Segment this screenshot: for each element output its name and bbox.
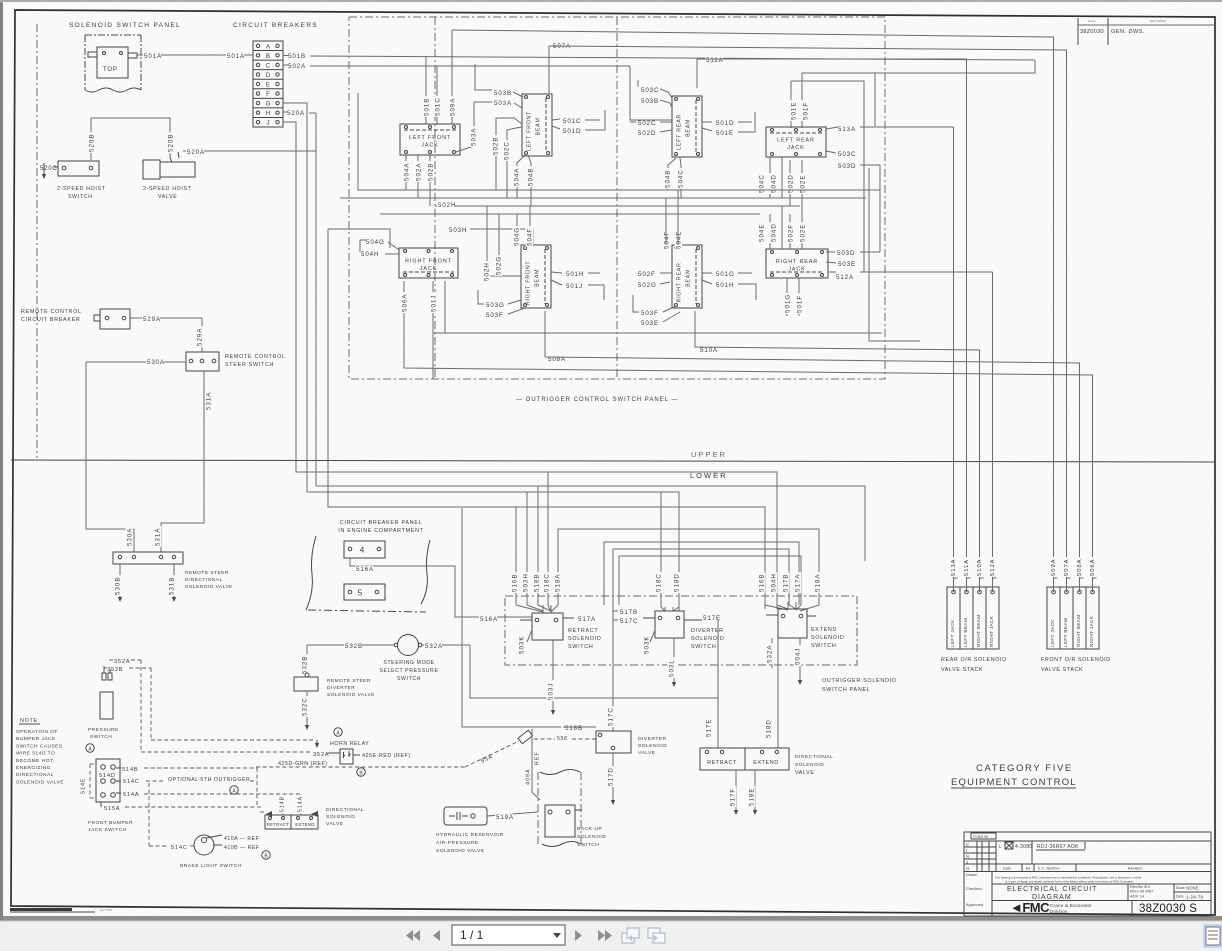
svg-text:DIRECTIONAL: DIRECTIONAL — [795, 754, 833, 760]
svg-text:504J: 504J — [794, 648, 801, 665]
svg-text:RETRACT: RETRACT — [707, 760, 737, 766]
svg-text:Scale: Scale — [1176, 886, 1185, 890]
pressure switch — [100, 692, 113, 719]
svg-text:Revision: Revision — [1128, 867, 1143, 871]
outrigger panel dash-dot boundary — [349, 17, 885, 379]
wire 516A from breaker 4 — [350, 558, 532, 617]
wire 532C ground — [306, 691, 308, 726]
svg-text:503B: 503B — [641, 98, 659, 105]
svg-text:BACK-UP: BACK-UP — [577, 826, 602, 832]
svg-text:502C: 502C — [638, 120, 656, 127]
svg-text:Division: Division — [1050, 909, 1068, 914]
svg-text:504H: 504H — [770, 573, 777, 592]
svg-text:SWITCH: SWITCH — [397, 676, 421, 682]
wire 531A — [161, 371, 204, 552]
svg-text:IN ENGINE COMPARTMENT: IN ENGINE COMPARTMENT — [338, 528, 423, 534]
svg-text:SWITCH PANEL: SWITCH PANEL — [822, 687, 870, 693]
diverter feed columns — [660, 492, 662, 607]
labels 504A 504B below left front beam — [517, 155, 525, 198]
svg-text:352A: 352A — [114, 659, 130, 665]
svg-text:514A: 514A — [123, 792, 139, 798]
labels 517B 517C — [619, 609, 637, 616]
svg-text:503E: 503E — [838, 261, 856, 268]
svg-text:516A: 516A — [356, 566, 374, 573]
breaker 4 — [344, 541, 385, 558]
svg-text:LEFT BEAM: LEFT BEAM — [963, 618, 968, 647]
wire 501B — [287, 53, 305, 60]
wire 520A to valve — [183, 150, 316, 152]
svg-text:517C: 517C — [607, 707, 614, 726]
middle bus y190 — [358, 93, 880, 190]
svg-text:D: D — [266, 72, 271, 79]
svg-text:532C: 532C — [301, 697, 308, 716]
svg-text:517A: 517A — [794, 574, 801, 592]
breaker 5 — [344, 584, 385, 600]
svg-text:502A: 502A — [288, 63, 306, 70]
svg-text:502E: 502E — [799, 224, 806, 242]
toolbar previous page button — [433, 930, 440, 941]
svg-text:501C: 501C — [563, 118, 581, 125]
svg-text:532B: 532B — [345, 643, 363, 650]
wire 503J ground — [552, 640, 554, 710]
svg-text:512A: 512A — [836, 274, 854, 281]
wire 513A — [837, 126, 855, 133]
svg-text:502B: 502B — [427, 163, 434, 181]
label 502H — [437, 202, 455, 209]
toolbar next page button — [575, 930, 582, 941]
svg-text:G: G — [266, 101, 271, 108]
svg-text:502B: 502B — [492, 137, 499, 155]
svg-text:2-SPEED HOIST: 2-SPEED HOIST — [57, 186, 106, 192]
labels 501G 501F below right rear jack — [786, 278, 788, 316]
front bumper jack switch — [96, 759, 120, 802]
svg-text:FORM 56: FORM 56 — [973, 835, 988, 839]
right front jack box — [399, 248, 458, 278]
svg-text:517B: 517B — [782, 574, 789, 592]
svg-text:502H: 502H — [438, 202, 456, 209]
bus y333 — [434, 332, 882, 334]
svg-text:504B: 504B — [527, 168, 534, 186]
svg-text:FRONT BUMPER: FRONT BUMPER — [88, 820, 133, 826]
wire 532A from switch — [421, 644, 470, 646]
svg-text:SWITCH: SWITCH — [568, 644, 593, 650]
svg-text:517F: 517F — [729, 788, 736, 806]
svg-text:504H: 504H — [361, 251, 379, 258]
svg-text:UPPER: UPPER — [691, 450, 727, 459]
svg-text:519A: 519A — [496, 814, 514, 821]
svg-text:501E: 501E — [790, 102, 797, 120]
svg-text:501H: 501H — [716, 282, 734, 289]
labels above extend switch — [758, 572, 766, 593]
svg-text:JACK: JACK — [787, 145, 804, 151]
bus 556 — [619, 556, 801, 605]
wire 520B hoist run — [91, 118, 170, 160]
svg-text:352B: 352B — [107, 667, 123, 673]
circle A optional — [230, 786, 238, 794]
engine panel torn boundary — [306, 536, 316, 610]
svg-text:REVISION: REVISION — [1150, 19, 1166, 23]
labels 504A 502A 502B below left front jack — [405, 155, 407, 190]
wire 518B — [564, 725, 582, 732]
svg-text:504E: 504E — [758, 224, 765, 242]
svg-text:EXTEND: EXTEND — [295, 822, 314, 827]
svg-text:By: By — [1026, 867, 1030, 871]
svg-text:E: E — [266, 82, 270, 89]
wire 504J ground — [799, 638, 801, 680]
left rear beam box — [672, 96, 702, 157]
svg-text:506A: 506A — [1090, 558, 1096, 576]
svg-text:RIGHT FRONT: RIGHT FRONT — [405, 259, 452, 265]
upper-lower divider line — [11, 460, 1215, 462]
svg-text:J: J — [266, 120, 269, 127]
label 515A — [100, 802, 102, 807]
svg-text:C: C — [966, 842, 969, 847]
svg-text:504F: 504F — [663, 231, 670, 249]
retract feed columns — [515, 507, 517, 605]
svg-text:JACK: JACK — [420, 266, 437, 272]
labels 504G 504F above right front beam — [516, 214, 518, 245]
svg-text:510A: 510A — [977, 558, 983, 576]
svg-text:518C: 518C — [543, 573, 550, 592]
svg-text:ENERGIZING: ENERGIZING — [16, 765, 51, 771]
bus 509A top — [452, 30, 1054, 590]
svg-text:REMOTE CONTROL: REMOTE CONTROL — [225, 354, 286, 360]
svg-text:503J: 503J — [547, 683, 554, 700]
svg-text:SOLENOID: SOLENOID — [638, 743, 667, 749]
svg-text:532A: 532A — [425, 643, 443, 650]
dashed 515A wire — [125, 806, 257, 808]
svg-text:513A: 513A — [838, 126, 856, 133]
svg-text:LEFT REAR: LEFT REAR — [677, 114, 683, 150]
circle B brake — [262, 851, 270, 859]
svg-text:503E: 503E — [641, 320, 659, 327]
svg-text:517A: 517A — [578, 616, 596, 623]
wire 517C down to diverter valve — [612, 549, 614, 731]
right rear beam box — [672, 245, 702, 308]
svg-text:38Z0030 S: 38Z0030 S — [1139, 903, 1197, 915]
wire 501E feed — [791, 81, 864, 272]
svg-text:Checked: Checked — [966, 887, 982, 891]
svg-text:514B: 514B — [279, 796, 285, 812]
svg-text:503F: 503F — [641, 310, 659, 317]
svg-text:BRAKE LIGHT SWITCH: BRAKE LIGHT SWITCH — [180, 863, 242, 869]
svg-text:501B: 501B — [288, 53, 306, 60]
svg-text:BEAM: BEAM — [686, 269, 692, 287]
svg-text:REMOTE CONTROL: REMOTE CONTROL — [21, 309, 82, 315]
svg-text:508A: 508A — [1077, 558, 1083, 576]
toolbar first page button — [406, 930, 420, 941]
svg-text:DIVERTER: DIVERTER — [327, 685, 355, 691]
svg-text:LEFT FRONT: LEFT FRONT — [409, 135, 451, 141]
svg-text:SOLENOID VALVE: SOLENOID VALVE — [16, 779, 64, 785]
dashed wire 352A run — [140, 660, 142, 752]
svg-text:SWITCH: SWITCH — [691, 644, 716, 650]
svg-text:BECOME HOT,: BECOME HOT, — [16, 758, 55, 764]
toolbar prev view icon — [622, 928, 639, 943]
svg-text:520A: 520A — [187, 149, 205, 156]
label 425E-RED — [353, 754, 360, 756]
remote control steer switch — [186, 352, 219, 371]
svg-text:501E: 501E — [716, 130, 734, 137]
svg-text:501F: 501F — [796, 295, 803, 313]
svg-text:F: F — [266, 91, 270, 98]
middle bus y206 — [435, 205, 800, 207]
wire 506A — [404, 281, 1093, 590]
svg-text:425D-GRN (REF): 425D-GRN (REF) — [278, 761, 328, 767]
svg-text:501J: 501J — [430, 295, 437, 312]
svg-text:512A: 512A — [990, 558, 996, 576]
left front jack box — [400, 124, 460, 155]
svg-text:SWITCH: SWITCH — [68, 194, 93, 200]
svg-text:CIRCUIT BREAKERS: CIRCUIT BREAKERS — [233, 22, 318, 29]
svg-text:2-SPEED HOIST: 2-SPEED HOIST — [143, 186, 192, 192]
svg-text:503K: 503K — [518, 636, 525, 654]
svg-text:504G: 504G — [513, 227, 520, 246]
labels 504C 504D 502D 502E below left rear jack — [769, 157, 771, 198]
svg-text:515A: 515A — [104, 806, 120, 812]
svg-text:B: B — [266, 53, 270, 60]
svg-text:530A: 530A — [126, 528, 133, 546]
wire 408A — [531, 729, 533, 792]
svg-text:DIVERTER: DIVERTER — [638, 736, 667, 742]
dashed 425D run with 95A — [144, 767, 256, 769]
svg-text:RIGHT JACK: RIGHT JACK — [1089, 615, 1094, 647]
wire 501A from panel to breakers — [137, 54, 253, 56]
dashed 514A wire — [144, 793, 301, 795]
svg-text:RIGHT REAR: RIGHT REAR — [677, 262, 683, 302]
svg-text:517B: 517B — [620, 609, 638, 616]
svg-text:532B: 532B — [301, 656, 308, 674]
svg-text:VALVE: VALVE — [795, 770, 815, 776]
reference table top right — [1077, 18, 1079, 45]
svg-text:— OUTRIGGER CONTROL SWITCH PAN: — OUTRIGGER CONTROL SWITCH PANEL — — [516, 397, 678, 403]
svg-text:OPERATION OF: OPERATION OF — [16, 729, 58, 735]
svg-text:◄FMC: ◄FMC — [1010, 900, 1050, 915]
svg-text:4: 4 — [360, 546, 365, 555]
svg-text:5: 5 — [358, 589, 363, 598]
svg-text:516B: 516B — [758, 574, 765, 592]
svg-text:DIRECTIONAL: DIRECTIONAL — [326, 807, 364, 813]
svg-text:LEFT REAR: LEFT REAR — [777, 138, 815, 144]
bus 511A — [705, 57, 723, 64]
svg-text:CIRCUIT BREAKER: CIRCUIT BREAKER — [21, 317, 81, 323]
svg-text:503F: 503F — [486, 312, 504, 319]
svg-text:EQUIPMENT CONTROL: EQUIPMENT CONTROL — [951, 777, 1077, 788]
directional solenoid valve rear — [700, 748, 789, 770]
svg-text:SOLENOID VALVE: SOLENOID VALVE — [436, 848, 485, 854]
svg-text:509A: 509A — [1051, 558, 1057, 576]
svg-text:502F: 502F — [787, 224, 794, 242]
svg-text:LEFT BEAM: LEFT BEAM — [1063, 618, 1068, 647]
svg-text:GEN. DWS.: GEN. DWS. — [1111, 29, 1145, 35]
bus 542 — [604, 542, 799, 605]
svg-text:502A: 502A — [415, 163, 422, 181]
svg-text:BEAM: BEAM — [536, 117, 542, 135]
svg-text:1 / 1: 1 / 1 — [460, 928, 484, 942]
toolbar page number box — [452, 925, 565, 945]
wire 529A — [130, 317, 202, 319]
svg-text:516A: 516A — [480, 616, 498, 623]
svg-text:511A: 511A — [964, 559, 970, 576]
toolbar — [0, 921, 1222, 951]
wire 501F feed — [801, 73, 803, 128]
svg-text:REMOTE STEER: REMOTE STEER — [327, 678, 371, 684]
dashed 514B wire — [144, 767, 257, 769]
svg-text:Date: Date — [1176, 895, 1184, 899]
svg-text:TOP: TOP — [103, 67, 118, 73]
sidebar notes icon — [1203, 924, 1222, 948]
svg-text:517E: 517E — [705, 719, 712, 737]
right rear jack box — [766, 249, 828, 278]
svg-text:529A: 529A — [143, 316, 161, 323]
directional solenoid valve front — [265, 815, 318, 829]
svg-text:513A: 513A — [951, 558, 957, 576]
label 503K retract — [518, 634, 526, 655]
wire 510A — [699, 347, 717, 354]
middle bus y198 — [340, 197, 866, 199]
svg-text:504F: 504F — [526, 228, 533, 246]
svg-text:JACK: JACK — [788, 267, 805, 273]
steering mode select pressure switch — [398, 635, 419, 656]
svg-text:510A: 510A — [700, 347, 718, 354]
svg-text:RIGHT REAR: RIGHT REAR — [776, 259, 818, 265]
svg-text:REAR O/R SOLENOID: REAR O/R SOLENOID — [941, 657, 1007, 663]
svg-text:ADV 14: ADV 14 — [1130, 894, 1145, 899]
svg-text:H: H — [266, 110, 270, 117]
svg-text:VALVE STACK: VALVE STACK — [1041, 667, 1083, 673]
svg-text:503H: 503H — [449, 227, 467, 234]
wire 519A — [487, 812, 538, 816]
svg-text:or in part, of design and deta: or in part, of design and details contai… — [1005, 880, 1135, 884]
svg-text:AIR-PRESSURE: AIR-PRESSURE — [436, 840, 479, 846]
svg-text:BEAM: BEAM — [535, 269, 541, 287]
svg-text:JACK SWITCH: JACK SWITCH — [88, 827, 127, 833]
rear outrigger solenoid valve stack — [947, 587, 999, 649]
svg-text:501J: 501J — [566, 283, 583, 290]
svg-text:SOLENOID SWITCH PANEL: SOLENOID SWITCH PANEL — [69, 22, 181, 29]
svg-text:Drawn: Drawn — [966, 873, 977, 877]
svg-text:SOLENOID: SOLENOID — [577, 834, 606, 840]
svg-text:SOLENOID: SOLENOID — [811, 635, 844, 641]
2-speed hoist valve — [143, 160, 160, 179]
svg-text:501B: 501B — [423, 98, 430, 116]
dashed 558 — [556, 736, 567, 742]
svg-text:38Z0030: 38Z0030 — [1080, 29, 1104, 35]
toolbar next view icon — [648, 928, 665, 943]
footer fine print — [10, 908, 72, 911]
svg-text:SELECT PRESSURE: SELECT PRESSURE — [379, 668, 438, 674]
wires 517F 518E grounds — [735, 770, 737, 810]
bus 549 — [613, 549, 789, 605]
svg-text:530A: 530A — [147, 359, 165, 366]
panel divider dash-dot 2 — [616, 17, 618, 379]
circle B horn — [357, 768, 365, 776]
svg-text:517C: 517C — [620, 618, 638, 625]
svg-text:RIGHT JACK: RIGHT JACK — [989, 615, 994, 647]
label 503K diverter — [643, 634, 651, 655]
svg-text:501G: 501G — [784, 294, 791, 313]
svg-text:1-24-78: 1-24-78 — [1186, 895, 1203, 900]
svg-text:REF: REF — [535, 751, 541, 765]
svg-text:518C: 518C — [655, 573, 662, 592]
svg-text:507A: 507A — [1064, 558, 1070, 576]
svg-text:Crane & Excavator: Crane & Excavator — [1050, 903, 1092, 908]
labels 502B 502C 503A vertical — [496, 118, 522, 190]
svg-text:4-3080: 4-3080 — [1015, 844, 1032, 850]
wire 530B ground — [119, 564, 121, 597]
title block — [964, 832, 1211, 916]
labels 504B 504C below left rear beam — [668, 158, 676, 190]
diverter solenoid valve bottom — [596, 731, 631, 753]
svg-text:SOLENOID: SOLENOID — [326, 814, 355, 820]
svg-text:RIGHT BEAM: RIGHT BEAM — [976, 614, 981, 647]
svg-text:504D: 504D — [770, 223, 777, 242]
svg-text:NOTE:: NOTE: — [20, 718, 40, 724]
panel divider dash-dot 1 — [434, 17, 436, 379]
svg-text:514C: 514C — [123, 779, 140, 785]
svg-text:REMOTE STEER: REMOTE STEER — [185, 570, 229, 576]
wire 532A below extend — [771, 638, 773, 668]
2-speed hoist switch — [58, 161, 99, 176]
svg-text:501H: 501H — [566, 271, 584, 278]
svg-text:506A: 506A — [401, 294, 408, 312]
svg-text:502G: 502G — [495, 256, 502, 275]
svg-text:520B: 520B — [88, 134, 95, 152]
svg-text:503H: 503H — [522, 573, 529, 592]
svg-text:504G: 504G — [366, 239, 385, 246]
svg-text:518B: 518B — [533, 574, 540, 592]
svg-text:517D: 517D — [607, 767, 614, 786]
svg-text:RDJ-36R07 AO8: RDJ-36R07 AO8 — [1037, 844, 1078, 850]
svg-text:SOLENOID VALVE: SOLENOID VALVE — [185, 584, 233, 590]
svg-text:E.C. Number: E.C. Number — [1038, 867, 1061, 871]
svg-text:503C: 503C — [641, 87, 659, 94]
labels 503B 503A — [493, 90, 511, 97]
svg-text:509A: 509A — [449, 98, 456, 116]
labels 410A 410B — [206, 835, 222, 838]
wire 517E down to directional valve — [717, 620, 719, 748]
svg-text:WIRE 514D TO: WIRE 514D TO — [16, 751, 55, 757]
svg-text:502D: 502D — [638, 130, 656, 137]
svg-text:DIRECTIONAL: DIRECTIONAL — [185, 577, 223, 583]
svg-text:HORN RELAY: HORN RELAY — [330, 741, 369, 747]
diverter solenoid switch — [655, 611, 684, 638]
svg-text:BEAM: BEAM — [686, 119, 692, 137]
svg-text:STEERING MODE: STEERING MODE — [383, 660, 434, 666]
bus 486 — [316, 486, 865, 561]
svg-text:N: N — [966, 854, 969, 859]
svg-text:511A: 511A — [706, 57, 724, 64]
brake light switch — [194, 835, 214, 855]
svg-text:SOLENOID VALVE: SOLENOID VALVE — [327, 692, 375, 698]
toolbar last page button — [598, 930, 612, 941]
svg-text:RIGHT BEAM: RIGHT BEAM — [1076, 614, 1081, 647]
wire 517D ground — [612, 753, 614, 800]
svg-text:410A — REF: 410A — REF — [224, 836, 259, 842]
svg-text:501D: 501D — [716, 120, 734, 127]
svg-text:SWITCH: SWITCH — [811, 643, 836, 649]
svg-text:352A: 352A — [313, 752, 329, 758]
svg-text:Date: Date — [1003, 867, 1011, 871]
svg-text:SWITCH CAUSES: SWITCH CAUSES — [16, 743, 63, 749]
svg-text:STEER SWITCH: STEER SWITCH — [225, 362, 274, 368]
bus 507A — [552, 43, 570, 50]
wire 508A — [547, 356, 565, 363]
svg-text:VALVE: VALVE — [158, 194, 177, 200]
label 503H — [448, 227, 466, 234]
svg-text:502G: 502G — [638, 282, 657, 289]
svg-text:EXTEND: EXTEND — [811, 627, 837, 633]
